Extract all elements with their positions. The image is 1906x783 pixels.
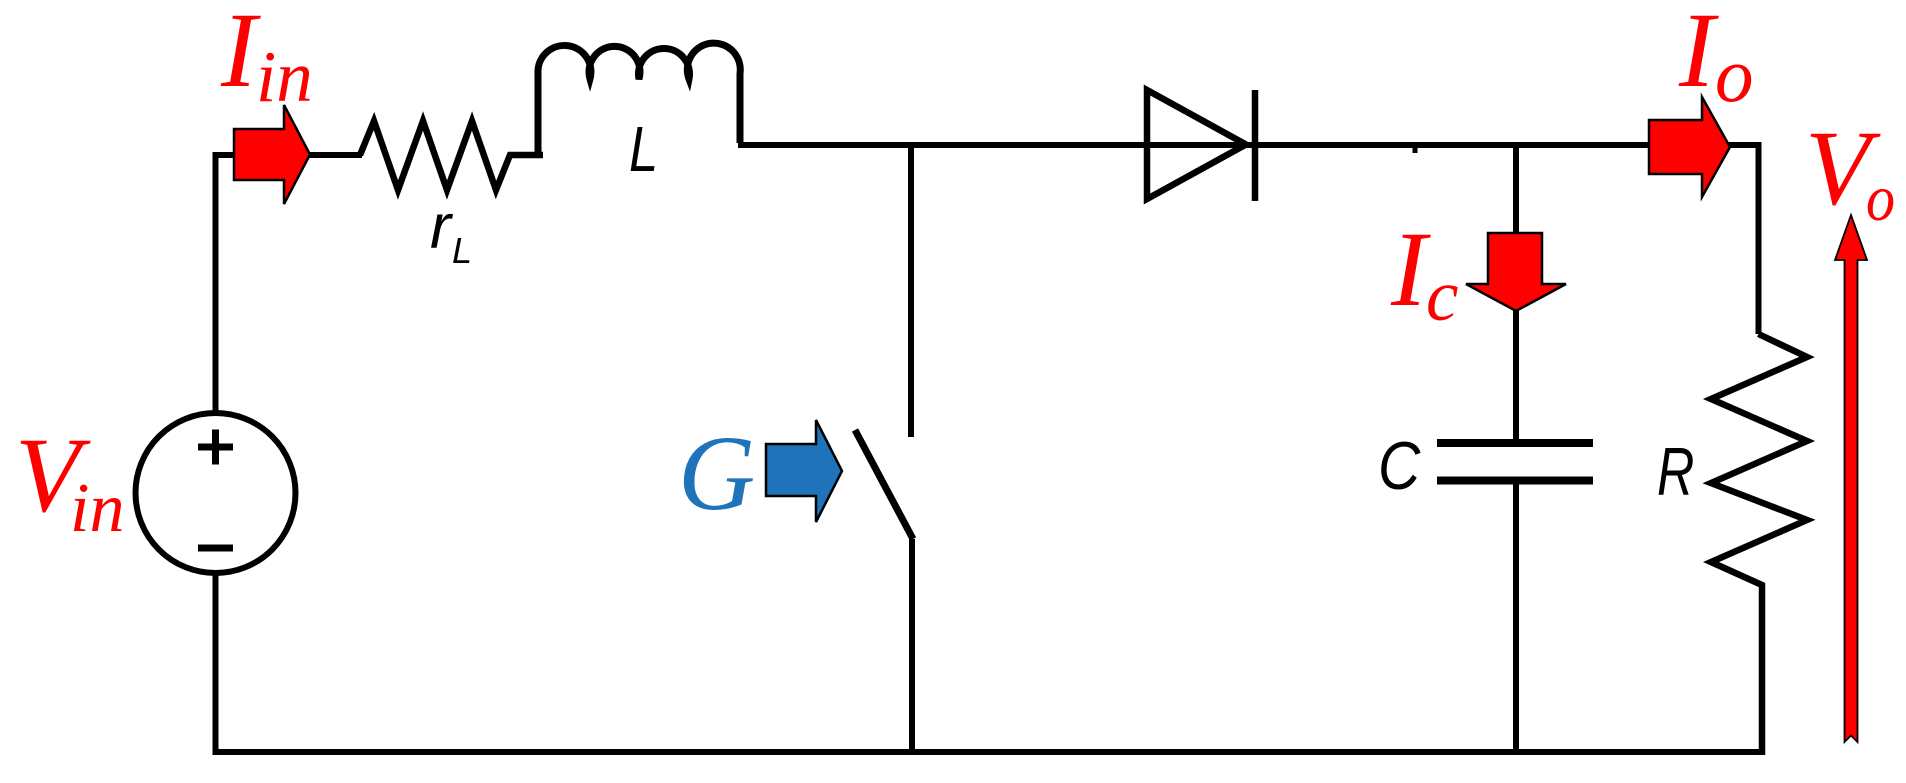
resistor rL <box>360 121 543 190</box>
diode D <box>1147 90 1255 201</box>
svg-text:r: r <box>430 192 454 262</box>
svg-text:o: o <box>1866 163 1895 235</box>
svg-text:in: in <box>70 470 124 547</box>
wire: bottom return rail <box>213 749 1765 755</box>
resistor R <box>1711 334 1807 755</box>
svg-text:L: L <box>452 230 472 271</box>
voltage arrow V_o <box>1835 215 1867 742</box>
wire: capacitor branch vertical (bottom) <box>1513 480 1519 755</box>
svg-text:I: I <box>1390 211 1431 329</box>
gate arrow G <box>766 420 842 522</box>
voltage source V_in <box>136 413 296 573</box>
current arrow I_o <box>1649 97 1730 197</box>
wire: capacitor branch vertical (top) <box>1513 142 1519 441</box>
current arrow I_c <box>1466 233 1566 311</box>
inductor L <box>538 43 740 158</box>
current arrow I_in <box>234 105 310 204</box>
svg-text:L: L <box>629 114 658 185</box>
wire: switch branch vertical (bottom) <box>909 539 915 755</box>
wire: top rail from inductor through diode to output corner <box>738 142 1760 148</box>
wire: output corner down to resistor R <box>1756 142 1762 334</box>
wire: left vertical lower (source bottom lead) <box>213 572 219 755</box>
wire: left vertical upper (source top lead) <box>213 152 219 414</box>
svg-text:C: C <box>1378 429 1421 504</box>
svg-text:o: o <box>1715 32 1754 118</box>
wire: junction stub <box>1413 148 1418 153</box>
svg-text:I: I <box>1678 0 1719 110</box>
svg-text:c: c <box>1426 255 1458 336</box>
wire: top-left horizontal from source to resistor <box>213 152 363 158</box>
svg-text:in: in <box>256 36 313 117</box>
wire: switch branch vertical (top) <box>908 142 914 437</box>
svg-text:I: I <box>220 0 261 110</box>
capacitor C <box>1437 443 1593 481</box>
svg-text:R: R <box>1657 433 1694 510</box>
switch blade (ideal switch G) <box>855 430 913 539</box>
svg-text:G: G <box>678 415 755 533</box>
